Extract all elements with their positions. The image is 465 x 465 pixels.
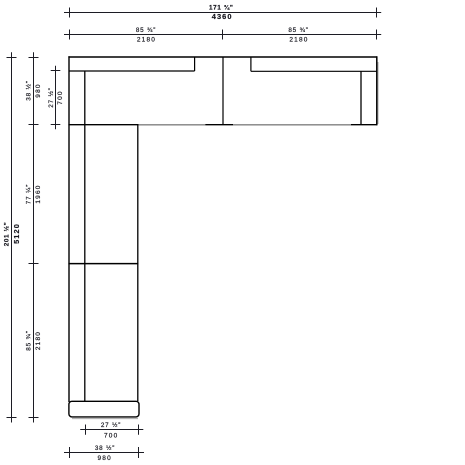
top section bottom edge black segment left — [68, 124, 138, 126]
svg-text:27 ½”: 27 ½” — [47, 87, 55, 107]
svg-text:700: 700 — [57, 90, 64, 104]
section divider — [222, 57, 224, 125]
dimension 85 3/4in 2180 top pair — [64, 30, 381, 40]
svg-text:27 ½”: 27 ½” — [101, 421, 121, 429]
svg-text:85 ¾”: 85 ¾” — [25, 330, 32, 350]
sofa outline top edge — [68, 56, 377, 58]
svg-text:38 ½”: 38 ½” — [24, 80, 32, 100]
sofa right edge — [376, 56, 378, 125]
chaise right edge — [137, 125, 139, 401]
dimension 38 1/2in 980 bottom — [64, 447, 144, 458]
dimension left column 980 1960 2180 — [29, 52, 39, 422]
svg-text:2180: 2180 — [35, 331, 42, 350]
svg-text:980: 980 — [97, 455, 111, 462]
dimension 201 1/2in 5120 left overall — [7, 52, 17, 422]
svg-text:201 ½”: 201 ½” — [2, 222, 10, 247]
svg-text:38 ½”: 38 ½” — [95, 444, 115, 452]
shadow right of right armrest — [377, 62, 379, 124]
right backrest — [251, 57, 377, 71]
top section front gray segment right — [233, 124, 351, 126]
svg-text:5120: 5120 — [12, 223, 21, 244]
svg-text:2180: 2180 — [137, 37, 156, 44]
svg-text:980: 980 — [35, 83, 42, 97]
svg-text:2180: 2180 — [289, 37, 308, 44]
svg-text:1960: 1960 — [35, 184, 42, 203]
shadow under bottom armrest — [72, 418, 138, 420]
svg-text:85 ¾”: 85 ¾” — [136, 27, 156, 34]
right armrest inner edge — [360, 71, 362, 124]
top section bottom edge black segment right — [351, 124, 377, 126]
svg-text:700: 700 — [104, 433, 118, 440]
top section front gray segment left — [139, 124, 206, 126]
dimension 27 1/2in 700 left seat depth — [51, 66, 61, 130]
sofa left edge — [68, 56, 70, 402]
svg-text:77 ¼”: 77 ¼” — [25, 184, 32, 204]
dimension 171 3/4in 4360 top overall — [64, 8, 381, 18]
bottom armrest — [69, 401, 139, 417]
chaise seat division — [68, 263, 138, 265]
top section bottom edge black segment middle — [205, 124, 233, 126]
left backrest — [69, 57, 195, 71]
dimension 27 1/2in 700 bottom — [80, 425, 143, 435]
svg-text:4360: 4360 — [212, 12, 233, 21]
svg-text:171 ¾”: 171 ¾” — [209, 4, 234, 12]
svg-text:85 ¾”: 85 ¾” — [288, 27, 308, 34]
left armrest inner edge — [84, 71, 86, 401]
